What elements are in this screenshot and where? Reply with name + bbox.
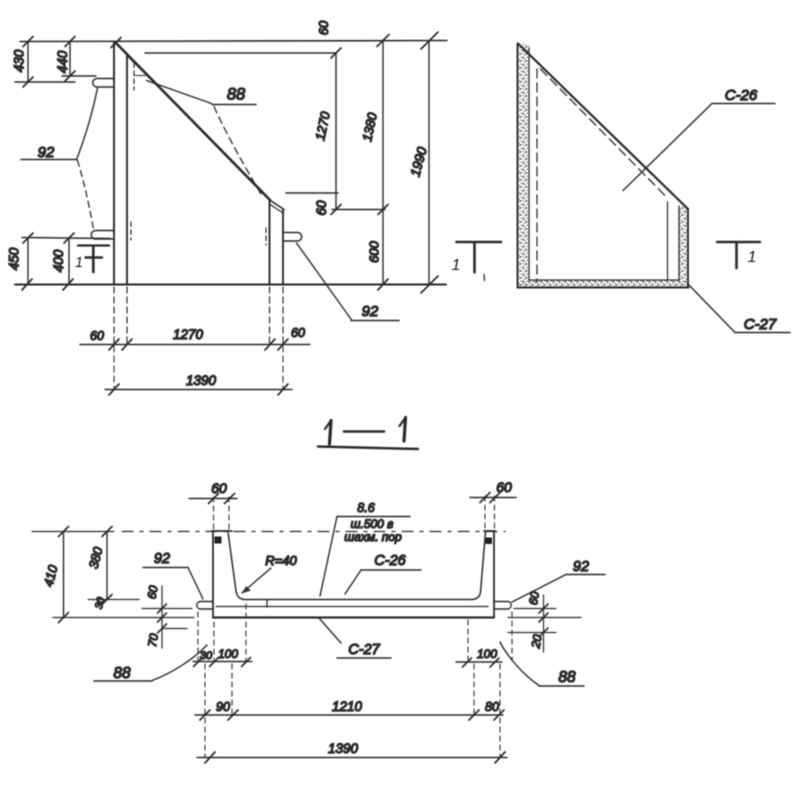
dim 410 vertical	[63, 532, 65, 618]
svg-text:1270: 1270	[173, 327, 204, 342]
dim 30-100 left: line	[193, 661, 252, 663]
dashed ext x214	[213, 622, 215, 660]
slab mid line	[216, 606, 488, 608]
C-26 underline	[361, 569, 421, 571]
svg-text:60: 60	[496, 479, 512, 495]
tick x69 y238	[64, 233, 74, 243]
GROUP: section 1-1	[32, 418, 605, 764]
title dash	[344, 430, 384, 433]
svg-text:70: 70	[145, 632, 161, 648]
svg-text:30: 30	[200, 650, 213, 662]
top hook (rebar loop upper)	[93, 79, 114, 88]
dim line y209.5	[332, 209, 385, 211]
tick x383 ground	[378, 279, 388, 290]
svg-text:60: 60	[211, 480, 227, 496]
extent line y608.5 left	[142, 608, 192, 610]
section mark left: top line	[457, 241, 502, 244]
dashed ext x232	[231, 664, 233, 714]
svg-text:1390: 1390	[328, 741, 359, 756]
svg-text:92: 92	[38, 144, 55, 161]
svg-text:C-27: C-27	[744, 316, 777, 333]
dashed ext right x474 long	[473, 664, 475, 714]
small dim vertical x543.5	[543, 595, 545, 652]
mitre inner line at top corner	[128, 56, 153, 81]
left wall outer face	[212, 531, 214, 618]
dim 380 vertical	[106, 532, 108, 600]
svg-text:60: 60	[145, 584, 161, 600]
dim 100 right: line	[456, 661, 502, 663]
svg-text:88: 88	[558, 669, 576, 686]
label 92 left underline	[21, 159, 77, 161]
svg-text:8.6: 8.6	[357, 501, 374, 515]
extent line y599.5 left	[88, 599, 139, 601]
8.6 underline	[337, 516, 410, 518]
svg-text:92: 92	[154, 551, 170, 567]
tick x114	[109, 339, 119, 350]
leader 92 left to hook	[188, 568, 203, 600]
dashed ext x512	[511, 612, 513, 661]
right wall inner face with fillet	[471, 532, 486, 600]
svg-text:600: 600	[367, 240, 382, 262]
svg-text:C-26: C-26	[725, 87, 758, 104]
right wall top edge	[484, 530, 495, 532]
extent line y193	[286, 192, 338, 194]
hidden hook dash upper	[133, 63, 135, 90]
title digit 1 left	[330, 421, 332, 445]
svg-text:C-27: C-27	[348, 642, 380, 658]
tick ground x68	[63, 279, 73, 290]
svg-text:92: 92	[573, 559, 589, 575]
left bar: right edge	[126, 55, 128, 285]
svg-text:C-26: C-26	[374, 553, 406, 569]
svg-text:440: 440	[55, 50, 70, 73]
datum dashes	[122, 531, 505, 533]
dim 1380-600 vertical	[382, 41, 384, 285]
ticks 100 right	[463, 658, 500, 667]
extent line y632.5 right	[508, 632, 556, 634]
extent line y617.5 left	[53, 617, 194, 619]
svg-text:1: 1	[452, 257, 461, 274]
floor line	[245, 599, 471, 601]
dim 60 left-wall: line	[189, 498, 237, 500]
panel inner left edge	[528, 48, 530, 280]
svg-text:430: 430	[12, 49, 27, 72]
small dim vertical x162	[161, 586, 163, 648]
svg-text:100: 100	[218, 647, 238, 661]
rebar dot left	[215, 537, 222, 544]
ground line	[15, 284, 446, 286]
dashed ext x246	[245, 604, 247, 660]
extent line y608.5 right	[514, 608, 556, 610]
leader 92 right	[512, 575, 566, 603]
leader C-27	[319, 618, 341, 643]
svg-text:60: 60	[291, 326, 305, 340]
leader 92 up to top hook	[77, 88, 98, 159]
tick x127	[122, 339, 132, 350]
right hook (rebar loop)	[284, 233, 302, 242]
hidden dash line along slope	[541, 69, 666, 196]
right bar: left edge	[269, 201, 271, 285]
stipple band left edge	[518, 44, 529, 287]
right bar bevel second line	[270, 204, 284, 213]
ticks 90-1210-80	[200, 710, 504, 720]
tick 380 top	[102, 527, 112, 537]
svg-text:1: 1	[75, 255, 83, 271]
section mark vertical stroke	[92, 246, 95, 272]
tick x485	[480, 493, 490, 503]
dim line 1390	[197, 757, 507, 759]
svg-text:20: 20	[528, 633, 544, 650]
ticks on x162	[158, 604, 167, 633]
tick x270	[265, 339, 275, 350]
long datum line at wall top	[32, 531, 114, 533]
tick x229.5	[225, 494, 235, 504]
dim line 1390	[105, 389, 292, 391]
section mark crossbar	[86, 256, 103, 258]
tick at x429 top	[421, 32, 438, 49]
right bar: right edge	[282, 210, 284, 285]
svg-text:шахм. пор: шахм. пор	[344, 530, 402, 544]
svg-text:60: 60	[314, 200, 329, 216]
right wall outer face	[493, 531, 495, 618]
leader C-26 into panel	[623, 104, 712, 191]
label C-26 underline	[712, 103, 775, 105]
ticks on x543.5	[539, 604, 548, 637]
GROUP: side view	[452, 44, 790, 334]
label 88 underline	[212, 104, 256, 106]
stipple band right edge	[679, 207, 688, 287]
lower hook (rebar loop left-bottom)	[91, 231, 114, 240]
svg-text:88: 88	[227, 86, 246, 104]
tick at x70 top	[65, 37, 75, 47]
leader 92 right to hook	[297, 243, 353, 321]
tick 1390 right	[278, 384, 288, 395]
leader C-26	[345, 570, 361, 594]
right hook in section	[495, 602, 512, 610]
slab bottom line	[213, 616, 494, 618]
hidden dash line along left edge	[536, 69, 538, 282]
extent line y76	[62, 75, 96, 77]
section mark 1 top line	[78, 244, 109, 246]
dashed ext x198	[197, 612, 199, 660]
tick 410 top	[59, 527, 69, 537]
hidden hook dash right bar	[265, 228, 267, 245]
panel sloped top edge	[518, 44, 688, 210]
tick x213.5	[209, 494, 219, 504]
tick at x116 top	[111, 38, 121, 48]
panel outer left edge	[517, 44, 519, 288]
tick x336 y209.5	[331, 205, 341, 215]
svg-text:88: 88	[113, 665, 131, 682]
label C-27 underline	[735, 332, 790, 334]
label 92 left underline	[143, 567, 188, 569]
label 88 left underline	[94, 680, 152, 682]
svg-text:60: 60	[90, 329, 104, 343]
dim 1270 vertical	[335, 53, 337, 210]
hidden hook level line	[135, 75, 149, 77]
leader 88 to diagonal	[147, 81, 212, 104]
leader R=40	[242, 568, 271, 593]
svg-text:ш.500 в: ш.500 в	[351, 517, 394, 531]
svg-text:1210: 1210	[332, 699, 363, 714]
tick x336 y53	[331, 48, 341, 58]
leader C-27 to corner	[688, 284, 736, 333]
leader 88 right	[500, 642, 539, 686]
ticks 30-100	[194, 658, 251, 667]
dim line y53	[145, 52, 336, 54]
C-27 underline	[337, 657, 391, 659]
dashed ext left x205 long	[204, 664, 206, 757]
ticks 1390	[205, 752, 505, 763]
svg-text:1390: 1390	[186, 373, 217, 388]
svg-text:450: 450	[7, 247, 22, 270]
panel right outer edge	[687, 209, 689, 288]
top dimension line	[20, 41, 447, 42]
tick 380 bottom	[102, 595, 112, 605]
tick 1390 left	[109, 384, 119, 395]
right bar bevel top	[269, 200, 284, 210]
dashed extensions above right wall	[485, 496, 495, 530]
section mark left: vertical	[473, 242, 476, 272]
dim 60 right-wall: line	[470, 497, 516, 499]
svg-text:R=40: R=40	[265, 553, 297, 568]
tick at x70 y76	[65, 71, 75, 81]
tick 410 bottom	[59, 613, 69, 623]
main diagonal edge	[116, 43, 271, 201]
tick at x28 y82	[23, 77, 33, 87]
extent line y628.5 left	[162, 628, 187, 630]
tick at x28 top	[23, 37, 33, 47]
title digit 1 right	[404, 418, 406, 442]
leader 92 down to lower hook	[78, 161, 94, 230]
label 88 right underline	[539, 685, 584, 687]
dim 430 vertical line	[27, 42, 29, 83]
hidden hook dash lower	[130, 222, 132, 240]
dim 440 vertical line	[69, 42, 71, 77]
section mark right: top line	[717, 241, 760, 243]
tick at x383 top	[377, 35, 389, 47]
dim 450 vertical	[27, 238, 29, 285]
dim 400 vertical	[68, 238, 70, 285]
stipple band bottom edge	[518, 280, 688, 288]
label 92 right underline	[566, 574, 605, 576]
tick x383 y209.5	[378, 205, 388, 215]
dashed leader 88 to hidden bar	[214, 107, 263, 198]
tick x283	[278, 339, 288, 350]
dashed ext right x500 long	[499, 664, 501, 757]
leader 8.6 to floor	[320, 517, 337, 597]
R=40 arrowhead	[242, 587, 251, 594]
right bar dashed extension below ground	[270, 287, 284, 343]
left wall inner face with fillet	[228, 532, 245, 600]
panel bottom outer edge	[518, 287, 689, 289]
tick x495	[490, 493, 500, 503]
dashed ext x468	[467, 620, 469, 661]
svg-text:80: 80	[485, 700, 499, 714]
section mark right: vertical	[735, 242, 738, 268]
svg-text:100: 100	[477, 647, 497, 661]
left bar: left edge	[113, 42, 115, 285]
panel right inner edge	[678, 206, 680, 280]
label 92 right underline	[351, 320, 399, 322]
left wall top edge	[212, 530, 232, 532]
extent line y82	[15, 81, 75, 83]
svg-text:60: 60	[526, 590, 542, 606]
dim line 90-1210-80	[195, 714, 503, 716]
svg-text:1: 1	[748, 249, 757, 266]
extent line y238	[22, 238, 110, 239]
bottom dim line 60-1270-60	[80, 344, 310, 346]
tick x28 y238	[23, 233, 33, 243]
left hook in section	[197, 602, 213, 610]
dim 1990 vertical	[428, 41, 430, 285]
title underline	[318, 447, 418, 450]
extension dashed x114 x283 to 1390 line	[114, 346, 283, 389]
hidden face line right	[667, 202, 669, 280]
left bar dashed extension below ground	[114, 287, 127, 343]
svg-text:400: 400	[51, 249, 66, 272]
tick ground x27	[22, 279, 32, 290]
extent line y617.5 right	[508, 617, 581, 619]
leader 88 left	[152, 645, 207, 681]
tick x429 ground	[421, 276, 438, 293]
GROUP: elevation view	[7, 20, 448, 395]
svg-text:92: 92	[362, 303, 379, 320]
section mark left: foot tick	[483, 275, 486, 281]
rebar dot right	[486, 538, 493, 545]
svg-text:60: 60	[316, 20, 331, 35]
panel bottom inner edge	[529, 279, 679, 281]
dashed extensions above left wall	[214, 497, 230, 530]
svg-text:90: 90	[216, 700, 230, 714]
slab joint tick	[266, 600, 268, 608]
